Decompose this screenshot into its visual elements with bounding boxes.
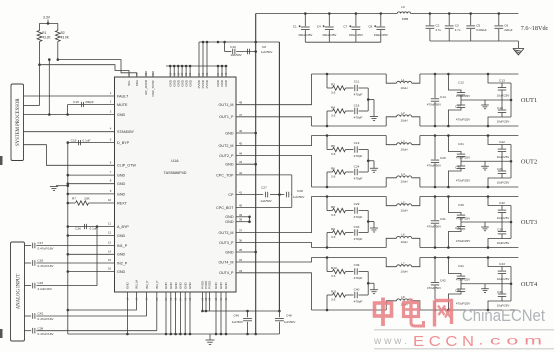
svg-text:330uF/35V: 330uF/35V bbox=[374, 33, 388, 37]
wire bbox=[40, 22, 58, 24]
PVDD pin stubs top bbox=[198, 42, 200, 77]
wire OUT4_M to filter bbox=[236, 258, 312, 263]
svg-text:GND: GND bbox=[183, 282, 187, 290]
svg-text:R9: R9 bbox=[331, 227, 335, 231]
svg-text:10uH: 10uH bbox=[401, 119, 408, 123]
resistor R10 3.6 bbox=[326, 256, 329, 259]
svg-text:L6: L6 bbox=[401, 233, 405, 237]
svg-text:GND: GND bbox=[225, 250, 234, 254]
svg-text:3.3V: 3.3V bbox=[43, 16, 51, 20]
svg-text:R2: R2 bbox=[61, 31, 65, 35]
svg-text:470pF: 470pF bbox=[354, 237, 363, 241]
svg-text:4.7u: 4.7u bbox=[435, 28, 441, 32]
svg-text:10uF/25V: 10uF/25V bbox=[497, 155, 510, 159]
wire connector edge bbox=[510, 206, 512, 239]
capacitor C35 10uF/25V bbox=[487, 246, 490, 249]
svg-text:7.6~18Vdc: 7.6~18Vdc bbox=[521, 25, 549, 32]
inductor L5 10uH bbox=[386, 197, 396, 206]
svg-text:0.47uF/16V: 0.47uF/16V bbox=[38, 247, 55, 251]
svg-text:220uF: 220uF bbox=[504, 28, 512, 32]
capacitor C48 1uF/50V bbox=[278, 311, 280, 317]
svg-text:C18: C18 bbox=[38, 259, 44, 263]
wire A_BYP pin 11 bbox=[68, 226, 115, 228]
svg-text:. c o m: . c o m bbox=[478, 334, 542, 348]
svg-text:C5: C5 bbox=[476, 23, 480, 27]
svg-text:3.6: 3.6 bbox=[331, 114, 336, 118]
svg-text:R6: R6 bbox=[331, 166, 335, 170]
wire OUT4_P to filter bbox=[236, 273, 312, 310]
svg-text:IN1_P: IN1_P bbox=[117, 244, 128, 248]
wire channel 2 bottom rail bbox=[312, 186, 387, 188]
svg-text:470uF/50V: 470uF/50V bbox=[427, 102, 441, 106]
svg-text:GND: GND bbox=[117, 234, 126, 238]
svg-text:43.2K: 43.2K bbox=[42, 36, 51, 40]
wire OUT3_P to filter bbox=[236, 243, 312, 248]
ground bbox=[484, 222, 486, 227]
svg-text:GND: GND bbox=[214, 282, 218, 290]
page mark bbox=[0, 156, 3, 165]
capacitor C5 0.082uF bbox=[469, 12, 472, 15]
svg-text:ANALOG INPUT: ANALOG INPUT bbox=[17, 274, 22, 310]
svg-text:L7: L7 bbox=[401, 262, 405, 266]
svg-text:C26: C26 bbox=[497, 167, 503, 171]
svg-text:L2: L2 bbox=[401, 111, 405, 115]
watermark rule lower bbox=[374, 348, 554, 350]
svg-text:FMB: FMB bbox=[402, 17, 408, 21]
wire snubber junction bbox=[367, 272, 369, 296]
svg-text:GND: GND bbox=[224, 282, 228, 290]
svg-text:470uF/25V: 470uF/25V bbox=[456, 217, 470, 221]
svg-text:10uH: 10uH bbox=[401, 180, 408, 184]
svg-text:CP: CP bbox=[228, 193, 234, 197]
svg-text:D_BYP: D_BYP bbox=[117, 141, 130, 145]
svg-text:C14: C14 bbox=[440, 95, 446, 99]
svg-text:3.6: 3.6 bbox=[331, 175, 336, 179]
capacitor C10 1uF/50V bbox=[224, 42, 226, 52]
svg-text:3.6: 3.6 bbox=[331, 91, 336, 95]
resistor R5 3.6 bbox=[326, 134, 329, 137]
resistor R6 3.6 bbox=[326, 186, 329, 189]
svg-text:41: 41 bbox=[239, 191, 243, 195]
svg-text:39: 39 bbox=[239, 213, 243, 217]
wire connector edge bbox=[510, 267, 512, 302]
svg-text:330uF/35V: 330uF/35V bbox=[349, 33, 363, 37]
svg-text:470pF: 470pF bbox=[354, 300, 363, 304]
svg-text:OUT1_M: OUT1_M bbox=[219, 103, 234, 107]
wire GND pin 43 bbox=[236, 163, 256, 165]
wire CPC_TOP pin 42 bbox=[236, 174, 292, 176]
svg-text:CPC_BOT: CPC_BOT bbox=[216, 206, 234, 210]
capacitor C11 470pF bbox=[354, 85, 356, 91]
svg-text:A_BYP: A_BYP bbox=[117, 225, 129, 229]
wire mid node bbox=[461, 99, 511, 101]
wire bbox=[48, 58, 51, 61]
svg-text:I2C_ADDR: I2C_ADDR bbox=[144, 79, 148, 95]
svg-text:3.6: 3.6 bbox=[331, 235, 336, 239]
wire mid node bbox=[461, 160, 511, 162]
resistor R4 3.6 bbox=[326, 125, 329, 128]
svg-text:3.6: 3.6 bbox=[331, 152, 336, 156]
svg-text:C15: C15 bbox=[73, 100, 79, 104]
svg-text:ChinaECNet: ChinaECNet bbox=[462, 307, 545, 325]
wire IN3_M return bbox=[68, 292, 137, 310]
svg-text:470pF: 470pF bbox=[354, 215, 363, 219]
svg-text:GND: GND bbox=[225, 215, 234, 219]
svg-text:C45: C45 bbox=[497, 290, 503, 294]
svg-text:GND: GND bbox=[188, 282, 192, 290]
svg-text:2.2uF/16V: 2.2uF/16V bbox=[38, 287, 53, 291]
svg-text:C34: C34 bbox=[455, 226, 461, 230]
svg-text:470uF/25V: 470uF/25V bbox=[456, 156, 470, 160]
svg-text:C32: C32 bbox=[499, 201, 505, 205]
capacitor C25 470uF/25V bbox=[447, 186, 450, 189]
wire channel 1 bottom rail bbox=[312, 125, 387, 127]
svg-text:OUT4_P: OUT4_P bbox=[219, 271, 234, 275]
wire CLIP_OTW pin 6 bbox=[24, 145, 115, 166]
svg-text:OUT2_M: OUT2_M bbox=[219, 144, 234, 148]
svg-text:C13: C13 bbox=[499, 78, 505, 82]
svg-text:38: 38 bbox=[239, 218, 243, 222]
svg-text:34: 34 bbox=[239, 258, 243, 262]
svg-text:470pF: 470pF bbox=[354, 177, 363, 181]
capacitor C41 470uF/25V bbox=[447, 256, 450, 259]
svg-text:C29: C29 bbox=[354, 202, 360, 206]
svg-text:GND: GND bbox=[164, 282, 168, 290]
capacitor C18 0.47uF/16V input bbox=[25, 262, 32, 264]
capacitor C17 470uF/25V bbox=[447, 125, 450, 128]
wire charge pump loop bbox=[291, 175, 293, 208]
svg-text:MUTE: MUTE bbox=[117, 103, 128, 107]
inductor L3 10uH bbox=[386, 136, 396, 145]
svg-text:C42: C42 bbox=[440, 279, 446, 283]
wire OUT1_M to filter bbox=[236, 74, 312, 105]
svg-text:45: 45 bbox=[239, 142, 243, 146]
capacitor C9 330uF/35V bbox=[380, 12, 383, 15]
svg-text:C27: C27 bbox=[261, 186, 267, 190]
svg-text:C17: C17 bbox=[455, 104, 461, 108]
wire PVDD vertical bbox=[278, 42, 280, 311]
svg-text:1uF/50V: 1uF/50V bbox=[293, 195, 304, 199]
svg-text:C38: C38 bbox=[38, 326, 44, 330]
capacitor C44 470uF/25V bbox=[447, 309, 450, 312]
svg-text:OUT1: OUT1 bbox=[521, 97, 537, 104]
svg-text:48: 48 bbox=[239, 101, 243, 105]
svg-text:C24: C24 bbox=[354, 165, 360, 169]
watermark rule upper bbox=[374, 329, 554, 331]
svg-text:R11: R11 bbox=[331, 289, 337, 293]
power ground bbox=[513, 48, 524, 50]
svg-text:C6: C6 bbox=[504, 23, 508, 27]
wire snubber junction bbox=[367, 211, 369, 233]
svg-text:C1: C1 bbox=[293, 24, 297, 28]
svg-text:GND: GND bbox=[225, 163, 234, 167]
svg-text:C44: C44 bbox=[455, 288, 461, 292]
capacitor C34 470uF/25V bbox=[447, 246, 450, 249]
svg-text:42: 42 bbox=[239, 171, 243, 175]
svg-text:3.6: 3.6 bbox=[331, 213, 336, 217]
ground bbox=[368, 221, 374, 223]
capacitor C18 10uF/25V bbox=[487, 125, 490, 128]
svg-text:470uF/50V: 470uF/50V bbox=[427, 224, 441, 228]
svg-text:GND: GND bbox=[117, 174, 126, 178]
inductor L1 10uH bbox=[386, 74, 396, 83]
wire connector edge bbox=[510, 83, 512, 117]
svg-text:C7: C7 bbox=[343, 24, 347, 28]
svg-text:3.6: 3.6 bbox=[331, 274, 336, 278]
wire GND pin 9 bbox=[68, 193, 115, 195]
wire channel 4 top rail bbox=[312, 257, 387, 259]
svg-text:40: 40 bbox=[239, 203, 243, 207]
svg-text:GND: GND bbox=[117, 253, 126, 257]
svg-text:11: 11 bbox=[108, 222, 111, 226]
svg-text:PVDD: PVDD bbox=[208, 280, 212, 289]
svg-text:1uF/50V: 1uF/50V bbox=[232, 320, 243, 324]
svg-text:C46: C46 bbox=[233, 313, 239, 317]
svg-text:L3: L3 bbox=[401, 140, 405, 144]
wire channel 2 top rail bbox=[312, 135, 387, 137]
svg-text:1uF/50V: 1uF/50V bbox=[260, 199, 271, 203]
capacitor C16 470pF bbox=[354, 108, 356, 114]
svg-text:U1A: U1A bbox=[171, 159, 179, 163]
ground bbox=[368, 99, 374, 101]
svg-text:C41: C41 bbox=[458, 264, 464, 268]
svg-text:OUT4: OUT4 bbox=[521, 281, 538, 288]
wire pin 3 bbox=[24, 114, 115, 116]
svg-text:C21: C21 bbox=[458, 142, 464, 146]
block ANALOG INPUT bbox=[11, 242, 25, 341]
capacitor C21 470uF/25V bbox=[447, 134, 450, 137]
svg-text:R5: R5 bbox=[331, 144, 335, 148]
wire GND pin 35 bbox=[236, 251, 256, 253]
svg-text:R10: R10 bbox=[331, 266, 337, 270]
PVDD pin stubs bottom bbox=[202, 292, 204, 311]
wire to power ground bbox=[517, 41, 519, 48]
svg-text:330uF/35V: 330uF/35V bbox=[298, 33, 312, 37]
svg-text:L9: L9 bbox=[401, 5, 405, 9]
inductor L4 10uH bbox=[386, 178, 396, 187]
svg-text:REXT: REXT bbox=[117, 201, 128, 205]
svg-text:OUT3_M: OUT3_M bbox=[219, 231, 234, 235]
svg-text:C30: C30 bbox=[458, 203, 464, 207]
wire GND pin 46 bbox=[236, 132, 256, 134]
ground bbox=[209, 334, 211, 340]
svg-text:GND: GND bbox=[179, 282, 183, 290]
wire GND pin 12 bbox=[68, 235, 115, 237]
wire channel 3 bottom rail bbox=[312, 247, 387, 249]
capacitor C29 470pF bbox=[354, 207, 356, 213]
wire snubber junction bbox=[367, 88, 369, 111]
svg-text:GND: GND bbox=[169, 282, 173, 290]
svg-text:470uF/50V: 470uF/50V bbox=[427, 286, 441, 290]
svg-text:C18: C18 bbox=[71, 138, 77, 142]
svg-text:470uF/50V: 470uF/50V bbox=[427, 164, 441, 168]
svg-text:SDA: SDA bbox=[135, 80, 139, 86]
svg-text:GND: GND bbox=[117, 113, 126, 117]
svg-text:IN3_P: IN3_P bbox=[145, 281, 149, 289]
svg-text:OUT3: OUT3 bbox=[521, 219, 537, 226]
capacitor C39 470pF bbox=[354, 268, 356, 274]
svg-text:0.47uF/16V: 0.47uF/16V bbox=[38, 317, 55, 321]
svg-text:C19: C19 bbox=[354, 141, 360, 145]
wire OUT2_M to filter bbox=[236, 136, 312, 146]
ground bbox=[368, 160, 374, 162]
PVDD bottom bus bbox=[203, 310, 280, 312]
capacitor C43 10uF/25V bbox=[487, 256, 490, 259]
analog ground vertical bbox=[67, 143, 69, 334]
svg-text:10uF/25V: 10uF/25V bbox=[497, 241, 510, 245]
svg-text:GND: GND bbox=[225, 220, 234, 224]
capacitor C31 470uF/50V bbox=[434, 195, 437, 198]
svg-text:C16: C16 bbox=[38, 281, 44, 285]
svg-text:C16: C16 bbox=[354, 104, 360, 108]
svg-text:35: 35 bbox=[239, 248, 243, 252]
svg-text:43: 43 bbox=[239, 160, 243, 164]
resistor R7 20K bbox=[68, 202, 75, 204]
capacitor C24 470pF bbox=[354, 169, 356, 175]
wire SCL net bbox=[38, 63, 41, 66]
svg-text:GND: GND bbox=[126, 282, 130, 290]
wire to IN3_P bbox=[146, 292, 148, 316]
svg-text:IN3_M: IN3_M bbox=[135, 280, 139, 289]
svg-text:C48: C48 bbox=[286, 313, 292, 317]
svg-text:0.47uF/16V: 0.47uF/16V bbox=[38, 264, 55, 268]
capacitor C26 10uF/25V bbox=[487, 186, 490, 189]
svg-text:36: 36 bbox=[239, 239, 243, 243]
capacitor C32 10uF/25V bbox=[487, 195, 490, 198]
inductor L8 10uH bbox=[386, 301, 396, 310]
svg-text:470uF/25V: 470uF/25V bbox=[456, 94, 470, 98]
svg-text:TAS5686P4D: TAS5686P4D bbox=[164, 171, 187, 175]
wire snubber junction bbox=[367, 150, 369, 173]
wire GND pin 8 bbox=[68, 183, 115, 185]
GND bus above IC bbox=[166, 65, 226, 67]
capacitor C42 470uF/50V bbox=[434, 256, 437, 259]
resistor R2 43.2K bbox=[57, 23, 59, 30]
svg-text:GND: GND bbox=[188, 79, 192, 87]
svg-text:C22: C22 bbox=[499, 140, 505, 144]
svg-text:0.47uF/16V: 0.47uF/16V bbox=[38, 332, 55, 336]
svg-text:20K: 20K bbox=[84, 197, 90, 201]
svg-text:OUT4_M: OUT4_M bbox=[219, 260, 234, 264]
svg-text:10uF/25V: 10uF/25V bbox=[497, 216, 510, 220]
svg-text:OUT3_P: OUT3_P bbox=[219, 241, 234, 245]
wire mid node bbox=[461, 221, 511, 223]
capacitor C13 10uF/25V bbox=[487, 73, 490, 76]
svg-text:C43: C43 bbox=[499, 262, 505, 266]
power rail 7.6-18Vdc bbox=[256, 13, 397, 15]
svg-text:470uF/25V: 470uF/25V bbox=[456, 278, 470, 282]
svg-text:E C C N: E C C N bbox=[413, 333, 474, 350]
wire MUTE pin 2 bbox=[68, 104, 115, 106]
capacitor C27 1uF/50V bbox=[265, 192, 267, 198]
svg-text:C17: C17 bbox=[38, 241, 44, 245]
ferrite bead L9 FMB bbox=[397, 12, 410, 14]
svg-text:SYSTEM PROCESSOR: SYSTEM PROCESSOR bbox=[16, 98, 21, 146]
svg-text:0.1uF: 0.1uF bbox=[83, 138, 91, 142]
svg-text:IN4_P: IN4_P bbox=[155, 281, 159, 289]
svg-text:C9: C9 bbox=[368, 24, 372, 28]
svg-text:470pF: 470pF bbox=[354, 93, 363, 97]
svg-text:OUT2: OUT2 bbox=[521, 158, 537, 165]
capacitor C22 10uF/25V bbox=[487, 134, 490, 137]
svg-text:STANDBY: STANDBY bbox=[117, 130, 135, 134]
capacitor C28 1uF/50V bbox=[286, 192, 288, 198]
wire OUT3_M to filter bbox=[236, 197, 312, 233]
svg-text:C18: C18 bbox=[497, 106, 503, 110]
wire to IN4_P bbox=[156, 292, 158, 331]
capacitor C12 470uF/25V bbox=[447, 73, 450, 76]
svg-text:OUT2_P: OUT2_P bbox=[219, 154, 234, 158]
PVDD line above IC bbox=[199, 41, 279, 43]
capacitor C45 10uF/25V bbox=[487, 309, 490, 312]
svg-text:GND: GND bbox=[224, 79, 228, 87]
svg-text:16: 16 bbox=[108, 267, 112, 271]
wire GND pin 14 bbox=[68, 253, 115, 255]
GND pin stubs bottom bbox=[126, 292, 128, 334]
svg-text:470uF/25V: 470uF/25V bbox=[456, 239, 470, 243]
capacitor C17 0.47uF/16V input bbox=[25, 245, 32, 247]
capacitor C40 470pF bbox=[354, 292, 356, 298]
svg-text:R4: R4 bbox=[331, 105, 335, 109]
svg-text:GND: GND bbox=[117, 270, 126, 274]
svg-text:L4: L4 bbox=[401, 172, 405, 176]
svg-text:SCL: SCL bbox=[127, 80, 131, 86]
wire GND pin 7 bbox=[68, 174, 115, 176]
svg-text:43.9K: 43.9K bbox=[61, 36, 70, 40]
svg-text:C25: C25 bbox=[455, 165, 461, 169]
svg-text:CLIP_OTW: CLIP_OTW bbox=[117, 164, 136, 168]
svg-text:C36: C36 bbox=[75, 227, 81, 231]
svg-text:R3: R3 bbox=[331, 82, 335, 86]
capacitor C42 0.47uF/16V input bbox=[25, 315, 32, 317]
svg-text:10uH: 10uH bbox=[401, 240, 408, 244]
svg-text:OUT1_P: OUT1_P bbox=[219, 115, 234, 119]
op-amp U1A TAS5686P4D body bbox=[115, 77, 237, 292]
capacitor C6 220uF bbox=[498, 12, 501, 15]
svg-text:w w w .: w w w . bbox=[373, 336, 407, 347]
svg-text:C28: C28 bbox=[297, 189, 303, 193]
svg-text:470uF/25V: 470uF/25V bbox=[456, 301, 470, 305]
wire channel 1 top rail bbox=[312, 73, 387, 75]
capacitor C1 330uF/35V bbox=[304, 12, 307, 15]
svg-text:15: 15 bbox=[108, 258, 112, 262]
capacitor C46 1uF/50V bbox=[247, 311, 249, 317]
wire GND pin 16 bbox=[68, 271, 115, 273]
block SYSTEM PROCESSOR bbox=[11, 84, 24, 161]
svg-text:46: 46 bbox=[239, 129, 243, 133]
inductor L6 10uH bbox=[386, 238, 396, 247]
svg-text:330uF/35V: 330uF/35V bbox=[322, 33, 336, 37]
GND pin stubs top bbox=[169, 66, 171, 77]
resistor R3 3.6 bbox=[326, 73, 329, 76]
svg-text:R1: R1 bbox=[42, 31, 46, 35]
capacitor C19 470pF bbox=[354, 146, 356, 152]
svg-text:33: 33 bbox=[239, 269, 243, 273]
svg-text:0.082uF: 0.082uF bbox=[476, 28, 487, 32]
resistor R8 3.6 bbox=[326, 195, 329, 198]
svg-text:C8: C8 bbox=[262, 45, 266, 49]
svg-text:C42: C42 bbox=[38, 312, 44, 316]
wire connector edge bbox=[510, 145, 512, 179]
svg-text:10: 10 bbox=[108, 198, 112, 202]
svg-text:470uF/25V: 470uF/25V bbox=[456, 117, 470, 121]
resistor R9 3.6 bbox=[326, 246, 329, 249]
capacitor C38 0.47uF/16V input bbox=[25, 330, 32, 332]
svg-text:C40: C40 bbox=[354, 288, 360, 292]
svg-text:13: 13 bbox=[108, 241, 112, 245]
wire SDA net bbox=[57, 58, 60, 61]
svg-text:1uF/50V: 1uF/50V bbox=[230, 53, 241, 57]
